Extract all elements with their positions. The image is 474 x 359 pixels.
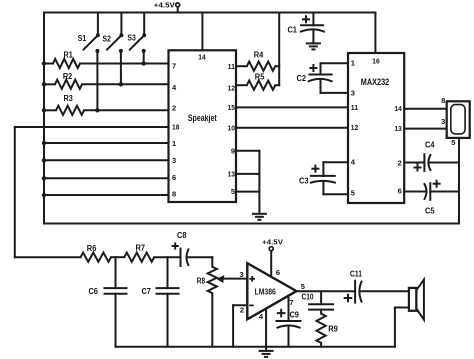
svg-text:C8: C8 xyxy=(177,231,187,240)
ground below Speakjet xyxy=(252,214,267,220)
svg-text:13: 13 xyxy=(394,124,401,133)
svg-text:13: 13 xyxy=(228,169,235,178)
svg-text:MAX232: MAX232 xyxy=(361,77,389,87)
svg-text:10: 10 xyxy=(228,124,235,133)
Speakjet left pin numbers xyxy=(172,62,179,199)
svg-text:8: 8 xyxy=(172,190,176,199)
svg-text:12: 12 xyxy=(351,123,358,132)
wire Speakjet pin 13 to ground bus xyxy=(236,173,259,175)
svg-text:16: 16 xyxy=(372,57,379,66)
svg-text:R4: R4 xyxy=(254,51,264,60)
svg-text:8: 8 xyxy=(441,96,445,105)
svg-text:7: 7 xyxy=(172,62,176,71)
wire feedback bottom horizontal into R6 xyxy=(15,256,81,258)
capacitor C6 xyxy=(88,257,126,347)
svg-text:2: 2 xyxy=(398,158,402,167)
resistor R6 xyxy=(81,244,111,262)
svg-text:Speakjet: Speakjet xyxy=(188,113,217,123)
wire speaker return xyxy=(395,308,409,347)
svg-text:2: 2 xyxy=(172,103,176,112)
svg-text:9: 9 xyxy=(231,146,235,155)
capacitor C1 xyxy=(287,13,324,44)
svg-text:S2: S2 xyxy=(103,35,112,44)
svg-text:5: 5 xyxy=(231,187,235,196)
wire LM386 output pin 5 xyxy=(297,290,356,292)
svg-text:5: 5 xyxy=(301,282,305,291)
capacitor C10 xyxy=(302,291,334,309)
svg-text:C10: C10 xyxy=(302,293,314,302)
speaker LS1 xyxy=(409,280,424,320)
svg-text:R3: R3 xyxy=(64,94,74,103)
wire Speakjet pin 6 row xyxy=(42,176,169,180)
wire Speakjet pin 9 to ground bus xyxy=(236,151,259,214)
svg-text:S1: S1 xyxy=(78,34,87,43)
svg-text:3: 3 xyxy=(240,270,244,279)
svg-text:C6: C6 xyxy=(88,287,98,296)
wire LM386 pin 2 to bottom rail xyxy=(233,305,247,346)
svg-text:11: 11 xyxy=(351,103,358,112)
LM386 pin labels xyxy=(240,268,305,321)
IC U2 MAX232 xyxy=(348,53,404,203)
svg-text:6: 6 xyxy=(276,268,280,277)
svg-text:5: 5 xyxy=(451,138,455,147)
MAX232 right pin numbers xyxy=(394,104,402,195)
switch S3 xyxy=(127,13,146,66)
capacitor C4 xyxy=(404,140,459,171)
wire Speakjet pin 14 stub to +4.5V rail xyxy=(201,13,203,51)
capacitor C3 xyxy=(299,162,348,194)
connector J1 serial DB9 xyxy=(447,101,470,138)
svg-text:R6: R6 xyxy=(87,244,97,253)
capacitor C8 xyxy=(172,231,213,266)
svg-text:C9: C9 xyxy=(289,311,299,320)
capacitor C11 xyxy=(344,269,409,302)
wire Speakjet pin 8 row xyxy=(42,193,169,197)
wire Speakjet pin 5 to ground bus xyxy=(236,191,259,193)
resistor R4 xyxy=(236,51,279,71)
svg-text:S3: S3 xyxy=(127,33,136,42)
wire R7 to C8 xyxy=(154,256,180,258)
svg-text:R8: R8 xyxy=(197,276,206,285)
svg-text:+4.5V: +4.5V xyxy=(262,237,283,246)
svg-text:6: 6 xyxy=(398,187,402,196)
svg-text:+4.5V: +4.5V xyxy=(154,0,175,9)
wire feedback left vertical xyxy=(14,127,16,257)
wire right edge from connector pin 5 down xyxy=(458,138,460,224)
wire top +4.5V rail xyxy=(44,12,376,14)
svg-text:R7: R7 xyxy=(136,243,146,252)
wire Speakjet pin 3 row xyxy=(42,158,169,162)
capacitor C9 xyxy=(277,296,301,347)
svg-text:1: 1 xyxy=(172,139,176,148)
resistor R5 xyxy=(236,73,279,90)
svg-text:2: 2 xyxy=(240,306,244,315)
svg-text:C3: C3 xyxy=(299,176,309,185)
wire Speakjet pin 18 row xyxy=(15,126,169,128)
capacitor C2 xyxy=(297,63,348,93)
resistor R7 xyxy=(124,243,154,261)
wire R6 to R7 xyxy=(111,256,124,258)
svg-text:1: 1 xyxy=(351,59,355,68)
svg-text:R9: R9 xyxy=(328,324,338,333)
svg-text:5: 5 xyxy=(351,188,355,197)
ground below LM386 pin 4 xyxy=(259,351,274,357)
svg-text:3: 3 xyxy=(172,156,176,165)
resistor R2 xyxy=(42,72,169,89)
pin 16 label xyxy=(372,57,379,66)
svg-text:18: 18 xyxy=(172,123,179,132)
wire MAX232 pin 13 to connector pin 3 xyxy=(404,128,447,130)
svg-text:C11: C11 xyxy=(350,269,362,278)
svg-text:11: 11 xyxy=(228,62,235,71)
svg-text:7: 7 xyxy=(289,298,293,307)
wire Speakjet pin 1 row xyxy=(42,141,169,145)
connector pin labels 8 3 5 xyxy=(441,96,455,147)
wire LM386 pin 4 to ground xyxy=(265,309,267,351)
switch S1 xyxy=(78,13,100,113)
capacitor C7 xyxy=(141,257,178,347)
resistor R9 xyxy=(317,310,339,347)
svg-text:C2: C2 xyxy=(297,74,307,83)
resistor R3 xyxy=(42,94,169,115)
wire bottom ground rail xyxy=(116,346,395,348)
svg-text:14: 14 xyxy=(394,104,402,113)
capacitor C5 xyxy=(404,180,459,216)
wire R4/R5 pull-up vertical to rail xyxy=(278,13,280,86)
MAX232 left pin numbers xyxy=(351,59,358,198)
svg-text:14: 14 xyxy=(198,53,206,62)
wire Speakjet pin 15 to MAX232 pin 11 xyxy=(236,106,348,108)
potentiometer R8 xyxy=(197,257,248,347)
svg-text:3: 3 xyxy=(351,89,355,98)
wire MAX232 pin 14 to connector pin 8 xyxy=(404,108,447,110)
svg-text:C5: C5 xyxy=(425,207,435,216)
svg-text:3: 3 xyxy=(441,117,445,126)
ground below C1 xyxy=(306,43,321,49)
svg-text:15: 15 xyxy=(228,103,235,112)
svg-text:R2: R2 xyxy=(63,72,73,81)
svg-text:R5: R5 xyxy=(255,73,265,82)
IC U1 Speakjet xyxy=(169,50,237,202)
wire Speakjet pin 10 to MAX232 pin 12 xyxy=(236,127,348,129)
power terminal +4.5V amp xyxy=(262,237,283,276)
wire MAX232 pin 16 stub to rail xyxy=(374,13,376,54)
svg-text:C1: C1 xyxy=(287,26,297,35)
pin 14 label xyxy=(198,53,206,62)
wire bottom edge of top section xyxy=(44,223,459,225)
svg-text:C7: C7 xyxy=(141,287,151,296)
svg-text:R1: R1 xyxy=(63,51,73,60)
wire left bus vertical edge xyxy=(43,13,45,224)
power terminal +4.5V top xyxy=(154,0,180,12)
svg-text:LM386: LM386 xyxy=(255,288,276,297)
Speakjet right pin numbers xyxy=(228,62,235,196)
switch S2 xyxy=(103,13,124,87)
resistor R1 xyxy=(42,51,169,68)
op-amp U3 LM386 xyxy=(247,263,296,319)
svg-text:C4: C4 xyxy=(425,140,435,149)
svg-text:12: 12 xyxy=(228,83,235,92)
svg-text:6: 6 xyxy=(172,173,176,182)
